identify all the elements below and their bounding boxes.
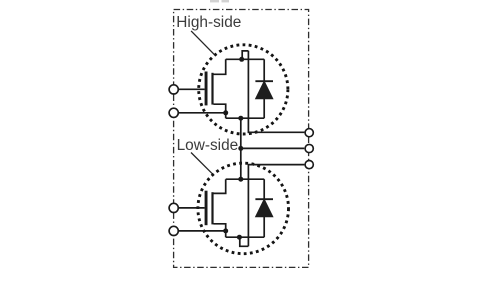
wire: main bus between high-side and low-side [240, 118, 242, 179]
diode D2 triangle [256, 199, 273, 217]
junction dot: P tab / top rail [239, 57, 244, 62]
terminal tab P (top) [242, 51, 248, 59]
diode D2 cathode bar [255, 198, 273, 200]
terminal: Q1 gate [169, 85, 178, 94]
wire: Q2 auxiliary source lead [176, 230, 226, 232]
wire: high-side top rail (drain node P) [226, 58, 265, 60]
diode D1 triangle [256, 81, 273, 99]
wire: Q1 drain lead [214, 59, 226, 74]
wire: Q1 auxiliary source lead [176, 112, 226, 114]
terminal: Q1 aux source [169, 108, 178, 117]
terminal 3: source sense [305, 161, 313, 169]
junction dot: terminal 2 tap [238, 146, 243, 151]
junction dot: Q1 aux source [223, 110, 228, 115]
terminal: Q2 aux source [169, 226, 178, 235]
junction dot: Q1 source rail / bus [238, 116, 243, 121]
wire: Q1 gate lead [176, 88, 204, 90]
diode D1 anode lead [263, 99, 265, 119]
wire: Q1 source lead [214, 104, 226, 118]
wire: output to terminal 2 [241, 147, 304, 149]
junction dot: Q2 aux source [223, 228, 228, 233]
wire: Q2 drain lead [214, 179, 226, 193]
module outline (dash-dot border) [174, 10, 309, 268]
leader line to low-side circle [191, 153, 213, 175]
terminal: Q2 gate [169, 203, 178, 212]
terminal tab N (bottom) [240, 237, 249, 246]
leader line to high-side circle [191, 31, 214, 54]
terminal 2: output [305, 144, 313, 152]
Q2 gate bar [205, 191, 208, 226]
diode D1 cathode lead [263, 59, 265, 81]
wire: high-side bottom rail (output node) [226, 117, 265, 119]
diode D2 anode lead [263, 217, 265, 238]
wire: low-side top rail (output node) [226, 178, 265, 180]
Q1 channel bar [211, 73, 213, 105]
terminal 1: drain sense [305, 129, 313, 137]
wire: Q2 source lead [214, 224, 226, 237]
dotted circle high-side [199, 45, 288, 134]
svg-text:Low-side: Low-side [177, 137, 239, 154]
diode D2 cathode lead [263, 179, 265, 199]
svg-text:High-side: High-side [176, 14, 241, 31]
Q1 gate bar [205, 72, 208, 106]
Q2 channel bar [211, 192, 213, 224]
wire: low-side bottom rail (source node N) [226, 236, 265, 238]
wire: source sense line from terminal 3 [248, 165, 304, 247]
diode D1 cathode bar [255, 80, 273, 82]
dotted circle low-side [198, 163, 289, 254]
wire: drain sense line to terminal 1 [248, 51, 304, 133]
wire: Q2 gate lead [176, 207, 204, 209]
cropped text remnant at top edge [210, 0, 229, 2]
junction dot: low-side top rail / bus [238, 177, 243, 182]
junction dot: N tab / bottom rail [237, 235, 242, 240]
